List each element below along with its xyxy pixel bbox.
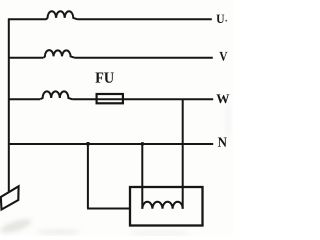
- label U: [216, 15, 224, 23]
- label V: [219, 52, 227, 61]
- wire: drop from N at x=142 to load coil: [141, 144, 143, 209]
- label FU: [95, 73, 103, 83]
- heating element coil inside appliance: [142, 202, 182, 209]
- label N: [218, 138, 227, 147]
- label W: [216, 94, 229, 103]
- fuse FU: [97, 94, 123, 103]
- node junction dot on N at x=142: [141, 142, 144, 145]
- wire: phase line W with winding: [8, 98, 40, 100]
- winding L1 (transformer coil on U): [46, 11, 77, 19]
- wire: bottom run to appliance case: [87, 208, 130, 210]
- node junction dot on N at x=88: [87, 142, 90, 146]
- wire: drop from N at x=88 (protective neutral bond): [87, 143, 89, 209]
- winding L2 (transformer coil on V): [44, 50, 75, 58]
- appliance enclosure box: [130, 187, 203, 226]
- wire: neutral line N: [8, 143, 213, 145]
- wire: V line to terminal: [75, 57, 213, 59]
- ground electrode plate: [1, 186, 19, 209]
- wire: left neutral-point bus: [8, 19, 10, 193]
- wire: phase line U with winding: [8, 18, 47, 20]
- wire: U line to terminal: [78, 18, 212, 20]
- wire: drop from W at x=183 to load coil: [182, 99, 184, 209]
- node junction on N at x=142: [141, 143, 143, 145]
- speck after U: [225, 20, 227, 22]
- wire: W line through fuse to terminal: [72, 98, 213, 100]
- winding L3 (transformer coil on W): [40, 91, 72, 99]
- wire: phase line V with winding: [8, 57, 44, 59]
